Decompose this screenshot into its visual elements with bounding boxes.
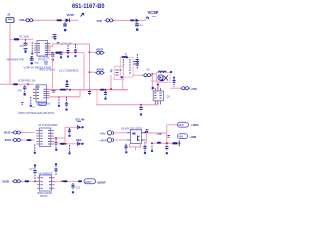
net label VC5P top xyxy=(67,13,75,17)
ic U3 body xyxy=(36,85,47,102)
capacitor C13 xyxy=(173,76,176,87)
capacitor C8b xyxy=(59,51,62,58)
wire U6 out xyxy=(55,180,64,182)
capacitor C6 xyxy=(54,36,57,41)
gnd bus upper xyxy=(50,89,129,91)
ground C5 xyxy=(30,62,33,65)
svg-text:AVCP: AVCP xyxy=(96,47,103,51)
svg-text:U1 LTC3803ES6: U1 LTC3803ES6 xyxy=(59,68,79,72)
wire F2 to L2 xyxy=(114,19,130,21)
ic U2 refdes xyxy=(38,57,50,61)
svg-text:VCP: VCP xyxy=(97,19,103,23)
junction box dot xyxy=(170,71,172,73)
resistor R22 xyxy=(68,128,71,137)
ic U6 right pins xyxy=(52,178,55,188)
capacitor C4 xyxy=(24,39,28,45)
vin bus left xyxy=(0,83,34,85)
ferrite FB7 xyxy=(78,180,82,182)
capacitor C14 xyxy=(139,104,142,116)
inductor L3 xyxy=(158,71,166,72)
capacitor C17 label xyxy=(30,168,35,171)
svg-text:BOD: BOD xyxy=(3,180,9,184)
ferrite FB8 xyxy=(145,131,149,133)
net label BOD xyxy=(3,180,9,184)
resistor R3 xyxy=(31,42,33,54)
transformer T1 box xyxy=(120,57,133,77)
net label VIN xyxy=(19,18,24,22)
ic U5 refdes xyxy=(121,127,142,130)
bus link xyxy=(79,90,81,97)
capacitor C3 xyxy=(135,22,139,27)
connector D4 xyxy=(142,74,152,77)
svg-text:C19: C19 xyxy=(76,187,81,190)
svg-text:C17: C17 xyxy=(30,168,35,171)
diode D6 xyxy=(164,76,169,81)
net label BUS+ xyxy=(4,131,12,135)
net label AVCP xyxy=(96,47,103,51)
feedback bus xyxy=(151,142,182,144)
svg-text:C7 0.1uF: C7 0.1uF xyxy=(62,42,73,45)
capacitor C7 xyxy=(57,42,60,44)
svg-text:REG 5V BIAS: REG 5V BIAS xyxy=(40,69,56,72)
net bubble +48M xyxy=(178,134,188,139)
resistor R20 marks xyxy=(21,103,24,105)
connector BUS- xyxy=(12,138,22,141)
resistor R15 xyxy=(157,142,161,144)
svg-text:VC5P: VC5P xyxy=(148,10,159,15)
svg-text:VC5P: VC5P xyxy=(67,13,75,17)
transformer T1 secondary xyxy=(130,59,136,75)
svg-text:651-1167-B0: 651-1167-B0 xyxy=(72,3,105,10)
svg-text:+48VR: +48VR xyxy=(99,140,107,143)
resistor R4 xyxy=(56,52,61,54)
ic U2 right pins xyxy=(48,44,51,55)
text under U2 left xyxy=(34,63,39,65)
wire Q1 vertical xyxy=(151,74,153,91)
ic U3 left pins xyxy=(33,89,36,99)
wire BUS+ in xyxy=(22,132,35,134)
ic U4 right pins xyxy=(51,131,54,145)
wire sec out xyxy=(133,74,142,76)
capacitor C20 value xyxy=(18,90,23,93)
diode pack D7 xyxy=(78,124,86,130)
ground C4 xyxy=(24,49,28,53)
junction bus A2 xyxy=(104,89,106,91)
svg-text:+48V: +48V xyxy=(100,132,106,135)
net label AVCN xyxy=(97,67,104,71)
resistor R5 xyxy=(67,45,70,58)
ferrite FB3 xyxy=(27,139,32,141)
svg-text:LTC3803ES6: LTC3803ES6 xyxy=(37,103,51,105)
gnd bus lower xyxy=(50,96,81,98)
connector AVCP xyxy=(95,51,105,54)
resistor R12 xyxy=(68,145,70,155)
transistor Q1 top pins xyxy=(155,83,160,91)
ground C3 xyxy=(136,28,139,31)
junction AVCN stub xyxy=(89,71,96,73)
capacitor C1 xyxy=(63,22,67,27)
svg-text:PWM CONTROLLER AND MON: PWM CONTROLLER AND MON xyxy=(18,112,54,115)
resistor R1 xyxy=(10,38,33,40)
svg-text:U4 TL431ACDBV: U4 TL431ACDBV xyxy=(38,124,58,127)
wire primary down xyxy=(110,75,112,90)
net label VCP xyxy=(97,19,103,23)
caption VC5P REGULATOR xyxy=(24,65,51,69)
capacitor C11 xyxy=(65,97,68,111)
ic U4 left pins xyxy=(36,131,39,145)
connector BUS+ xyxy=(12,131,22,134)
capacitor C10 xyxy=(58,97,60,107)
svg-text:GND: GND xyxy=(34,63,39,65)
wire rect in xyxy=(151,80,160,82)
wire FB6 right xyxy=(68,180,79,182)
ic U2 left pins xyxy=(34,44,37,53)
wire VIN to L1 xyxy=(34,19,56,21)
wire L1 to D1 xyxy=(62,19,66,21)
ground C1 xyxy=(64,29,67,32)
ic U6 caption2 xyxy=(40,196,48,198)
wire U2 pin2 up xyxy=(51,44,90,47)
net flag VC5P xyxy=(81,13,84,16)
svg-text:VIN MONITOR: VIN MONITOR xyxy=(6,58,24,62)
capacitor C20 xyxy=(23,86,26,96)
svg-text:SM712: SM712 xyxy=(40,196,48,198)
net label +48F xyxy=(156,133,162,136)
inductor T1 top bead xyxy=(122,56,129,58)
ic U4 body xyxy=(39,128,51,147)
connector D4 label xyxy=(147,69,151,72)
gnd stub U5 a xyxy=(124,144,127,154)
connector BOD xyxy=(12,180,22,183)
resistor R13 xyxy=(146,130,149,132)
resistor R11 xyxy=(55,139,58,151)
wire BUS- in xyxy=(22,139,35,141)
wire box out xyxy=(170,87,180,89)
feedback loop xyxy=(130,144,141,151)
junction SDA xyxy=(65,143,67,145)
svg-text:LT1761-5: LT1761-5 xyxy=(38,59,48,61)
svg-text:VCSP REG 1%: VCSP REG 1% xyxy=(18,80,36,83)
sec bus left up xyxy=(96,91,98,105)
snubber C12 xyxy=(136,54,139,69)
gnd stub fb b xyxy=(165,146,168,155)
inductor L5 xyxy=(13,83,18,85)
junction SCL xyxy=(55,137,57,139)
diode D2 xyxy=(136,19,140,23)
svg-text:SCLAN: SCLAN xyxy=(76,117,85,121)
snub box xyxy=(114,67,123,80)
svg-text:SDA: SDA xyxy=(76,138,82,142)
wire down from junction xyxy=(51,53,53,90)
svg-text:+BODF: +BODF xyxy=(97,180,107,184)
capacitor C17 xyxy=(33,164,36,179)
gnd stub BOD label xyxy=(76,187,81,190)
net label VC5P right xyxy=(148,10,159,15)
wire SDA out xyxy=(54,143,77,145)
connector J1 label xyxy=(7,13,11,17)
wire D4 to box xyxy=(151,73,156,75)
resistor R14 marks xyxy=(168,136,171,138)
svg-text:R1 100k: R1 100k xyxy=(20,36,30,39)
gnd stub fb a xyxy=(151,146,153,153)
transformer T1 primary xyxy=(122,59,124,75)
capacitor C8 xyxy=(74,44,77,57)
capacitor C5 xyxy=(30,57,34,62)
net bubble VDRV xyxy=(38,102,47,106)
wire snub down xyxy=(122,80,124,90)
caption PWM CONTROLLER xyxy=(18,112,54,115)
wire SCL vertical xyxy=(64,127,66,144)
wire to VC5P flag xyxy=(140,17,148,20)
net label SDA xyxy=(76,138,82,142)
connector AVCN xyxy=(95,71,105,74)
svg-text:AVCN: AVCN xyxy=(97,67,104,71)
svg-text:BUS+: BUS+ xyxy=(4,131,12,135)
marks under U2 right xyxy=(44,62,48,64)
svg-text:J1: J1 xyxy=(7,13,11,17)
ic U3 right pins xyxy=(47,89,50,98)
ic U3 inner names xyxy=(37,89,46,99)
net label SCLAN xyxy=(76,117,85,121)
svg-text:1%: 1% xyxy=(32,107,35,109)
capacitor C18 xyxy=(54,163,57,175)
wire D1 right xyxy=(70,19,78,21)
svg-text:BUS-: BUS- xyxy=(5,138,12,142)
ic U6 left pins xyxy=(37,178,40,188)
net label +BODF xyxy=(97,180,107,184)
svg-text:+48F: +48F xyxy=(156,133,162,136)
gnd stub BOD xyxy=(71,183,74,194)
svg-text:48VF: 48VF xyxy=(179,125,185,127)
capacitor C4 value xyxy=(20,45,25,48)
transistor Q1 bottom pins xyxy=(155,101,160,105)
capacitor C9 xyxy=(65,80,68,89)
fuse F1 xyxy=(25,19,35,22)
net flag +48V xyxy=(100,131,114,136)
wire U2 pin4 right xyxy=(51,52,84,54)
resistor R21 xyxy=(88,91,91,96)
caption VIN MONITOR xyxy=(6,58,24,62)
connector J1 xyxy=(6,18,14,23)
gnd mark left bus xyxy=(52,91,56,93)
wire to +48VF xyxy=(167,125,179,144)
ferrite FB4 xyxy=(60,143,65,145)
junction BOD xyxy=(34,180,36,182)
ic U4 refdes xyxy=(38,124,58,127)
transistor Q1 refdes xyxy=(167,95,171,98)
tick under VC5P xyxy=(152,16,156,18)
ic U4 inner names xyxy=(40,131,50,145)
ic U5 inner diode xyxy=(133,132,136,134)
capacitor C8a xyxy=(51,54,54,61)
junction vin bus xyxy=(27,83,29,85)
inductor L4 xyxy=(60,89,66,91)
ic U6 inner names xyxy=(41,178,52,188)
ic U6 caption xyxy=(38,192,53,195)
junction AVCP stub xyxy=(89,51,96,53)
ic U2 body xyxy=(37,41,48,57)
junction bus A1 xyxy=(69,89,71,91)
wire SCL up xyxy=(65,126,77,128)
resistor R20 xyxy=(30,97,32,107)
junction U2 net xyxy=(51,52,53,54)
output box xyxy=(157,73,171,83)
inductor L2 xyxy=(130,20,135,22)
wire vertical right xyxy=(89,47,91,90)
resistor R1 label xyxy=(20,36,30,39)
capacitor C7 label xyxy=(62,42,73,45)
wire vertical mid xyxy=(83,53,85,90)
net label BUS- xyxy=(5,138,12,142)
mosfet Q2 xyxy=(104,91,107,100)
wire flag1 in xyxy=(114,132,127,134)
resistor R10 xyxy=(34,145,36,155)
caption under U2 xyxy=(40,69,56,72)
diode D1 xyxy=(66,18,70,22)
svg-text:BOD FILTER: BOD FILTER xyxy=(38,192,53,195)
wire L2 junction xyxy=(135,19,141,21)
capacitor C2 label xyxy=(52,35,57,39)
snub marks left xyxy=(110,70,113,72)
ic U3 note xyxy=(32,107,35,109)
caption feedback xyxy=(18,80,36,83)
junction fb xyxy=(151,142,168,144)
wire U5 out2 xyxy=(145,129,147,143)
net bubble +BODF xyxy=(84,179,96,184)
net label +48V xyxy=(191,87,198,91)
ic U2 inner pin names xyxy=(38,44,47,55)
ic U5 inner transistor xyxy=(138,136,140,142)
ic U5 body xyxy=(131,130,142,144)
svg-text:VIN: VIN xyxy=(19,18,24,22)
wire SCL out xyxy=(54,137,65,139)
wire FB5 to U6 xyxy=(29,180,37,182)
title 651-1167-B0 xyxy=(72,3,105,10)
fuse F2 xyxy=(105,19,115,22)
sec gnd bus xyxy=(96,104,158,106)
connector +48V out xyxy=(180,87,190,90)
transformer T1 refdes xyxy=(125,53,129,57)
net flag +48VR xyxy=(99,138,114,143)
ic U5 right pins xyxy=(142,133,146,140)
ic U1 refdes xyxy=(59,68,79,72)
ferrite FB6 xyxy=(63,180,68,182)
ferrite FB1 xyxy=(100,89,105,91)
diode D5 xyxy=(158,75,163,80)
capacitor C3 value xyxy=(140,24,143,27)
resistor R16 xyxy=(173,141,180,146)
ic U3 refdes xyxy=(37,103,51,105)
svg-text:+V48: +V48 xyxy=(191,87,198,91)
ic U5 left pins xyxy=(127,133,131,140)
diode pack D8 xyxy=(78,142,85,146)
net label +48M xyxy=(190,135,197,139)
sec bus right up xyxy=(156,101,158,105)
ic U6 body xyxy=(40,175,52,191)
wire BOD in xyxy=(22,180,25,182)
net bubble +48VF xyxy=(178,122,189,127)
gnd stub U5 b xyxy=(143,142,146,154)
svg-text:+48VF: +48VF xyxy=(191,123,199,127)
svg-text:+48M: +48M xyxy=(190,135,197,139)
junction Q1 xyxy=(152,87,155,90)
transistor Q1 inner xyxy=(154,93,162,98)
ic U6 refdes xyxy=(39,173,54,176)
wire J1 down xyxy=(9,23,11,40)
transistor Q1 body xyxy=(153,91,163,101)
wire U5 out1 xyxy=(148,132,167,134)
snub diodes xyxy=(116,70,123,78)
svg-text:BODF: BODF xyxy=(85,182,92,184)
wire flag2 in xyxy=(114,139,127,141)
net label +48VF xyxy=(191,123,199,127)
wire VIN rail left xyxy=(9,40,11,85)
svg-text:48M: 48M xyxy=(179,137,184,139)
inductor L1 xyxy=(57,19,63,21)
ferrite FB5 xyxy=(25,180,30,182)
diode D9 xyxy=(160,80,164,82)
